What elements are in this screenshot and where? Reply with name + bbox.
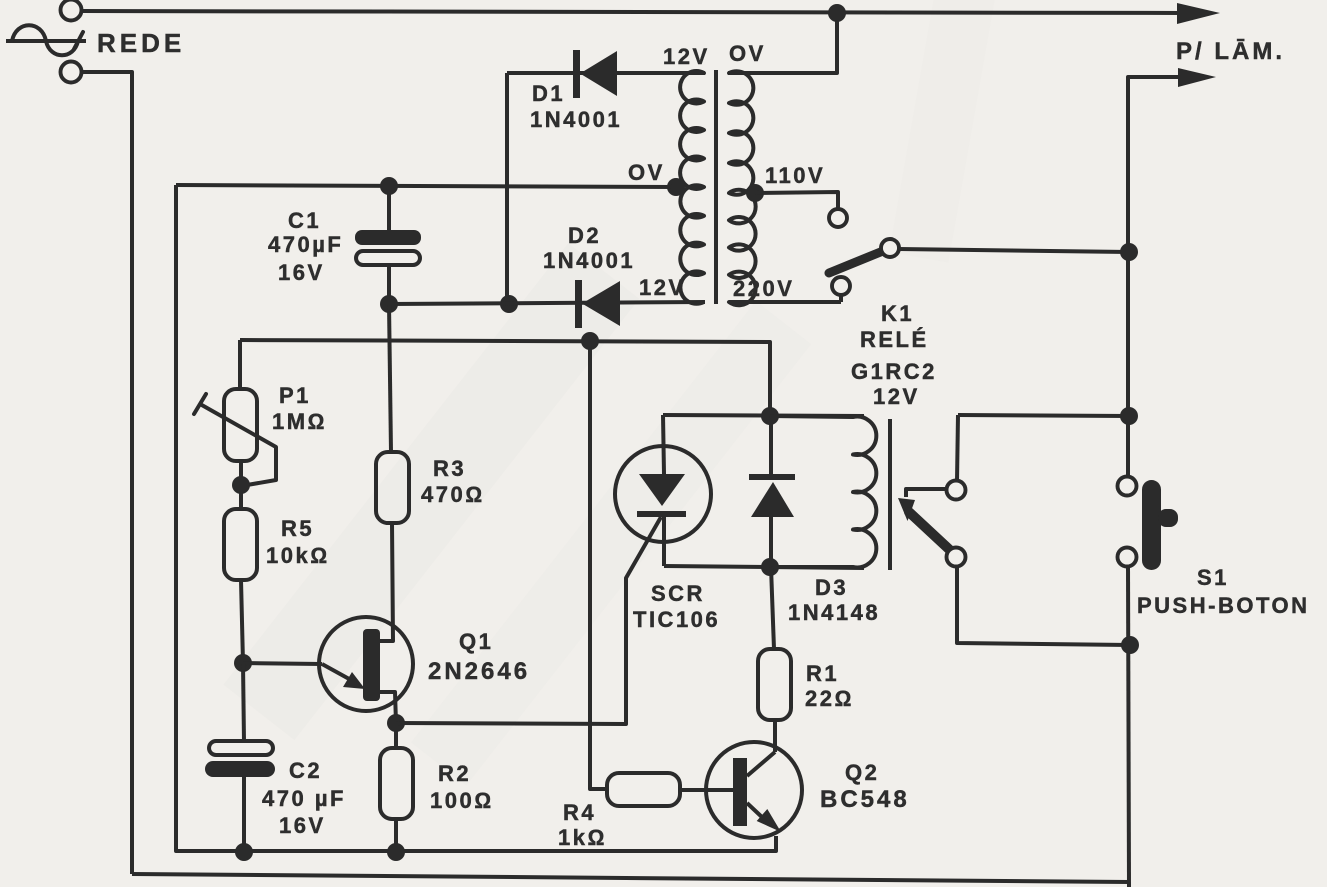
diode D2 cathode bar xyxy=(575,280,582,328)
resistor R1 body xyxy=(758,649,791,720)
wire: REDE lower terminal to outer frame xyxy=(82,72,132,874)
node: center tap 0V xyxy=(667,178,685,196)
svg-text:K1: K1 xyxy=(881,301,914,326)
svg-text:1N4148: 1N4148 xyxy=(788,600,880,625)
terminal: REDE upper xyxy=(61,0,82,21)
svg-text:C1: C1 xyxy=(288,208,321,233)
wire: P1 top lead xyxy=(238,340,242,389)
svg-text:100Ω: 100Ω xyxy=(430,788,494,813)
relay K1 coil xyxy=(770,416,876,567)
transistor Q2 (BC548) xyxy=(706,742,802,851)
svg-text:C2: C2 xyxy=(289,758,322,783)
resistor R4 body xyxy=(607,773,680,806)
wire: 0V rail from inner frame to center tap xyxy=(176,185,676,187)
node: C2 to 0V xyxy=(235,843,253,861)
wire: +12V vertical (D1/D2 cathodes join) xyxy=(505,73,509,304)
svg-text:R1: R1 xyxy=(806,661,839,686)
wire: P1 bottom lead xyxy=(239,461,243,485)
node: junction to right vertical bottom xyxy=(1121,636,1139,654)
node: 110V tap xyxy=(746,184,764,202)
wire: gate wire from junction to SCR gate xyxy=(396,517,661,724)
wire: 110V tap to selector contact xyxy=(755,192,838,209)
node: 0V rail to C1 xyxy=(380,177,398,195)
svg-text:R3: R3 xyxy=(433,456,466,481)
svg-text:22Ω: 22Ω xyxy=(805,686,854,711)
wire: R2 top lead xyxy=(394,723,398,748)
terminal: selector pivot xyxy=(881,239,899,257)
svg-text:1kΩ: 1kΩ xyxy=(558,825,607,850)
transformer core xyxy=(714,70,718,304)
wire: R4 right lead to Q2 base xyxy=(680,788,707,792)
svg-text:470 µF: 470 µF xyxy=(262,786,346,811)
svg-text:OV: OV xyxy=(729,41,766,66)
svg-text:Q1: Q1 xyxy=(459,629,493,654)
node: D3 bottom junction xyxy=(761,558,779,576)
terminal: relay moving contact xyxy=(947,548,966,567)
terminal: relay fixed contact xyxy=(947,481,966,500)
node: junction relay contact / right vertical xyxy=(1120,407,1138,425)
node: emitter node xyxy=(234,654,252,672)
wire: cathode rail y=567 xyxy=(664,566,864,568)
transformer primary winding (right) xyxy=(729,71,841,305)
push button S1 terminals xyxy=(1118,477,1137,496)
wire: R5 bottom to Q1 emitter node xyxy=(241,580,243,663)
wire: relay NO contact feed from right vertical xyxy=(958,415,1129,416)
svg-text:12V: 12V xyxy=(663,44,710,69)
svg-text:12V: 12V xyxy=(873,384,920,409)
capacitor C1 plate + (solid) xyxy=(355,230,421,245)
transistor Q1 (UJT 2N2646) xyxy=(319,617,413,723)
wire: C2 bottom lead xyxy=(242,777,246,852)
potentiometer P1 body xyxy=(224,389,257,461)
wire: top mains line from REDE upper terminal to lamp arrow xyxy=(82,11,1183,13)
node: Q1 B1 / R2 / gate wire junction xyxy=(387,714,405,732)
wire: anode rail y=415 xyxy=(663,415,864,416)
relay core xyxy=(888,419,892,570)
SCR TIC106 xyxy=(615,415,711,566)
potentiometer P1 wiper arrow xyxy=(200,404,276,485)
wire: +12 vertical down to R3 xyxy=(389,304,391,452)
diode D1 cathode bar xyxy=(573,50,580,98)
wire: outer frame bottom xyxy=(132,874,1129,882)
lamp feed arrowhead 2 xyxy=(1178,68,1216,87)
svg-text:1N4001: 1N4001 xyxy=(543,248,635,273)
wire: C2 top lead xyxy=(243,663,244,742)
lamp feed arrowhead P/LAM top xyxy=(1177,3,1220,24)
wire: moving contact down to bottom rail xyxy=(957,565,1130,645)
node: C1 to +12 rail xyxy=(380,295,398,313)
svg-text:TIC106: TIC106 xyxy=(633,607,720,632)
wire: R3 bottom to Q1 B2 xyxy=(379,523,393,641)
wire: drop from top rail to primary 0V tap xyxy=(728,13,837,73)
capacitor C1 plate - (open) xyxy=(356,251,420,265)
svg-text:P/ LĀM.: P/ LĀM. xyxy=(1176,38,1285,65)
AC source symbol (sine) xyxy=(6,25,86,55)
wire: C1 bottom lead xyxy=(387,265,391,304)
diode D2 triangle xyxy=(582,281,620,326)
svg-text:P1: P1 xyxy=(279,383,311,408)
wire: selector pivot to right vertical xyxy=(899,249,1129,252)
svg-text:OV: OV xyxy=(628,160,665,185)
svg-text:Q2: Q2 xyxy=(845,760,879,785)
svg-text:220V: 220V xyxy=(733,276,794,301)
transformer T1 secondary winding (left) xyxy=(507,71,704,304)
node: R2 to 0V xyxy=(387,843,405,861)
relay armature arrow xyxy=(906,489,946,497)
svg-text:REDE: REDE xyxy=(97,28,185,58)
wire: right main vertical upper part through junctions to arrow xyxy=(1128,77,1183,477)
wire: D1 rail from +12 vertical to transformer top 12V tap xyxy=(507,71,705,75)
resistor R3 body xyxy=(376,452,409,523)
wire: R1 bottom lead to Q2 collector xyxy=(773,720,777,752)
svg-text:S1: S1 xyxy=(1197,565,1229,590)
node: P1 wiper to R5 xyxy=(232,476,250,494)
wire: inner frame (0V) left and bottom xyxy=(176,185,776,851)
node: D3 top junction xyxy=(761,407,779,425)
capacitor C2 bottom plate (solid) xyxy=(205,761,275,777)
wire: emitter node to Q1 xyxy=(243,663,322,664)
svg-text:1N4001: 1N4001 xyxy=(530,107,622,132)
wire: C1 top lead xyxy=(387,186,391,232)
node: R4 feed junction on bias rail xyxy=(581,332,599,350)
svg-text:D3: D3 xyxy=(815,575,848,600)
terminal: 220V selector contact xyxy=(832,277,850,295)
wire: R5 top lead xyxy=(239,485,243,509)
relay armature lever xyxy=(909,512,952,552)
node: junction top rail to transformer primary 0V xyxy=(828,4,846,22)
svg-text:16V: 16V xyxy=(279,813,326,838)
resistor R5 body xyxy=(224,509,257,580)
svg-text:D1: D1 xyxy=(532,81,565,106)
svg-text:SCR: SCR xyxy=(651,581,705,606)
svg-text:BC548: BC548 xyxy=(820,786,910,813)
wire: right main vertical (lamp return) lower part xyxy=(1128,566,1129,887)
svg-text:D2: D2 xyxy=(568,223,601,248)
node: D2 rail junction xyxy=(500,295,518,313)
svg-text:10kΩ: 10kΩ xyxy=(266,543,330,568)
wire: 220V tap lead up to contact xyxy=(839,295,843,302)
terminal: 110V selector contact xyxy=(829,209,847,227)
selector lever (mains voltage switch) xyxy=(829,251,883,273)
wire: bias rail y=341 (P1 top to D3 top) xyxy=(240,340,770,416)
wire: R2 bottom lead xyxy=(394,819,398,852)
svg-text:G1RC2: G1RC2 xyxy=(851,359,937,384)
svg-text:16V: 16V xyxy=(278,260,325,285)
wire: contact lead down xyxy=(957,415,958,481)
node: junction selector/right vertical xyxy=(1120,243,1138,261)
svg-text:470µF: 470µF xyxy=(268,232,343,257)
push button S1 plunger xyxy=(1142,480,1161,570)
svg-text:R2: R2 xyxy=(438,761,471,786)
resistor R2 body xyxy=(380,748,413,819)
wire: R4 left lead and feed from bias rail xyxy=(590,341,607,789)
wire: R1 top lead xyxy=(771,567,774,649)
terminal: REDE lower xyxy=(61,62,82,83)
svg-text:470Ω: 470Ω xyxy=(421,482,485,507)
svg-text:2N2646: 2N2646 xyxy=(428,658,530,685)
scan shading band xyxy=(223,0,1000,785)
svg-text:1MΩ: 1MΩ xyxy=(272,409,327,434)
svg-text:PUSH-BOTON: PUSH-BOTON xyxy=(1137,593,1310,618)
diode D3 (flyback) xyxy=(749,416,795,567)
svg-text:R4: R4 xyxy=(563,800,596,825)
wire: rectified rail y=304 from C1 to transformer lower 12V tap xyxy=(389,302,705,304)
svg-text:RELÉ: RELÉ xyxy=(860,327,929,352)
capacitor C2 top plate (open) xyxy=(209,741,273,755)
svg-text:R5: R5 xyxy=(281,516,314,541)
svg-text:110V: 110V xyxy=(765,163,825,188)
diode D1 triangle xyxy=(580,51,617,96)
